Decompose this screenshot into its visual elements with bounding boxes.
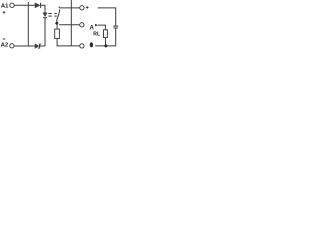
wire A1 to diode (14, 4, 35, 6)
LED arrows (48, 13, 51, 15)
svg-text:RL: RL (93, 32, 100, 38)
resistor R (55, 29, 60, 38)
contact dashes (54, 13, 56, 15)
contact NO wire (59, 7, 80, 9)
svg-text:A: A (90, 25, 95, 32)
bottom rail left (14, 45, 35, 47)
vertical branch line left (27, 2, 29, 46)
blob on bottom rail (90, 42, 93, 47)
wire diode to corner (41, 5, 45, 12)
arrow after A (95, 24, 98, 27)
coil to rail (105, 38, 107, 46)
coil RL box (104, 30, 108, 38)
terminal middle (A) (80, 23, 84, 27)
terminal top (+) (80, 6, 84, 10)
junction dot (104, 44, 107, 47)
capacitor plates (113, 25, 118, 27)
minus label above A2 (3, 38, 5, 40)
wire LED down to bottom rail (44, 18, 46, 46)
terminal A1 (10, 3, 14, 7)
plus wire top right (98, 8, 116, 26)
plus label under A1 (3, 11, 6, 14)
LED (43, 13, 47, 17)
terminal A2 (10, 44, 14, 48)
svg-text:A1: A1 (1, 3, 9, 9)
contact fixed tick (58, 7, 60, 8)
pole wire resistor to rail (57, 38, 80, 46)
terminal bottom (80, 44, 84, 48)
pole wire to resistor (56, 25, 58, 29)
diode D1 (35, 3, 40, 8)
long vertical link (70, 0, 72, 46)
cap to rail corner (95, 29, 116, 46)
wire middle terminal (59, 24, 80, 26)
coil feed wire (98, 25, 106, 30)
plus label right (86, 6, 89, 9)
svg-text:A2: A2 (1, 43, 9, 49)
zener D2 (35, 44, 39, 49)
pivot blob (56, 22, 59, 25)
contact arm (57, 9, 60, 21)
